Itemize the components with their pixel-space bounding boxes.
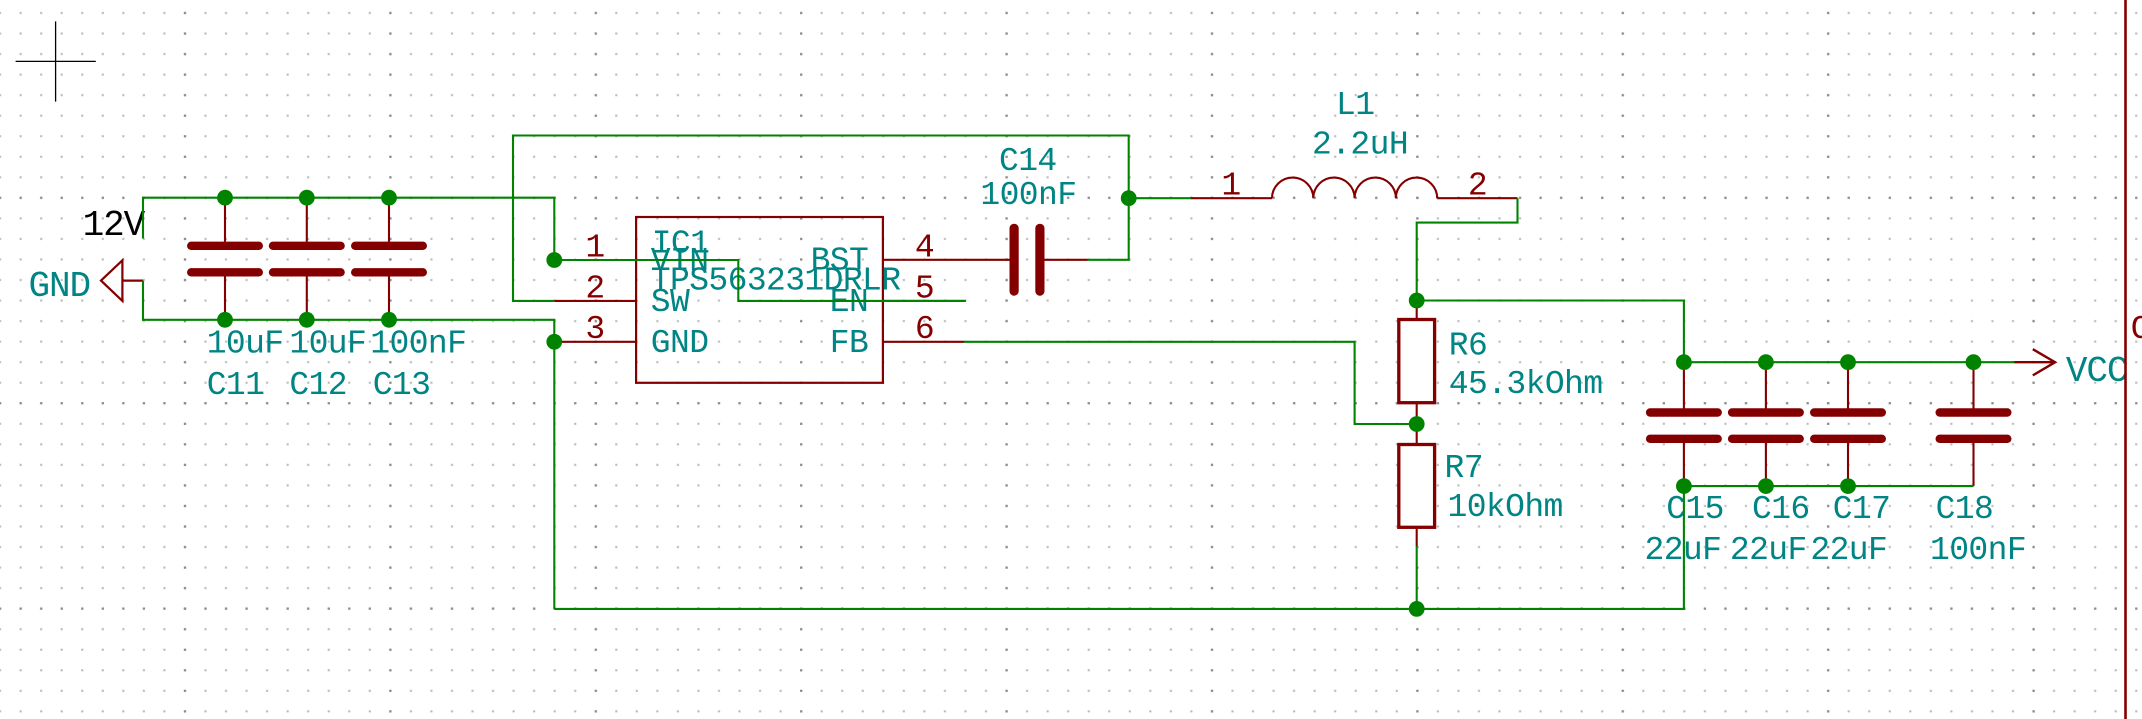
junction node 17 (1676, 478, 1692, 494)
junction node 14 (1758, 354, 1774, 370)
junction node 16 (1966, 354, 1982, 370)
svg-text:SW: SW (651, 284, 690, 321)
svg-text:GND: GND (651, 325, 709, 362)
junction node 9 (1121, 190, 1137, 206)
svg-text:VCC: VCC (2066, 351, 2128, 392)
pin 2 SW (554, 300, 636, 302)
wire VCC bus (1684, 361, 2015, 363)
svg-text:100nF: 100nF (980, 177, 1076, 214)
svg-text:2.2uH: 2.2uH (1312, 127, 1408, 164)
sheet border (2124, 0, 2127, 719)
svg-text:C16: C16 (1752, 491, 1810, 528)
svg-text:2: 2 (1468, 167, 1487, 204)
wire VCC node link (1417, 301, 1684, 363)
svg-text:22uF: 22uF (1730, 532, 1807, 569)
capacitor C18 (1936, 408, 2012, 416)
pin 4 BST (883, 259, 1010, 261)
junction node 3 (381, 190, 397, 206)
wire VIN to EN (554, 260, 966, 301)
svg-text:10kOhm: 10kOhm (1448, 489, 1563, 526)
svg-text:C18: C18 (1936, 491, 1994, 528)
svg-text:2: 2 (585, 270, 604, 307)
junction node 18 (1758, 478, 1774, 494)
svg-text:3: 3 (585, 311, 604, 348)
wire FB divider (964, 342, 1417, 424)
junction node 13 (1676, 354, 1692, 370)
svg-text:FB: FB (830, 325, 868, 362)
svg-text:10uF: 10uF (289, 326, 366, 363)
junction node 6 (381, 312, 397, 328)
svg-text:45.3kOhm: 45.3kOhm (1449, 366, 1603, 403)
pin 6 FB (883, 341, 964, 343)
svg-text:4: 4 (915, 229, 934, 266)
wire node to L1 (1129, 197, 1191, 199)
capacitor C16 (1728, 408, 1804, 416)
sheet origin cross (16, 60, 96, 62)
capacitor C13 (351, 242, 427, 250)
global label VCC arrow (2015, 361, 2056, 363)
wire GND drop (143, 281, 554, 609)
svg-text:EN: EN (830, 284, 868, 321)
svg-text:GND: GND (29, 266, 91, 307)
wire R7 to ground (1416, 546, 1418, 609)
inductor L1 (1272, 178, 1437, 199)
svg-text:6: 6 (915, 311, 934, 348)
svg-text:C11: C11 (207, 367, 265, 404)
svg-text:C13: C13 (373, 367, 431, 404)
junction node 15 (1840, 354, 1856, 370)
capacitor C12 (269, 242, 345, 250)
junction node 4 (217, 312, 233, 328)
wire L1 out jog (1417, 198, 1518, 300)
svg-text:VIN: VIN (651, 243, 709, 280)
wire C14 right to node (1088, 198, 1129, 260)
wire SW to top loop (513, 136, 1129, 301)
svg-text:R7: R7 (1445, 450, 1483, 487)
junction node 19 (1840, 478, 1856, 494)
junction node 12 (1409, 601, 1425, 617)
junction node 7 (546, 252, 562, 268)
junction node 10 (1409, 293, 1425, 309)
svg-text:C17: C17 (1833, 491, 1891, 528)
wire caps bottom bus (1684, 485, 1974, 487)
svg-text:100nF: 100nF (370, 326, 466, 363)
capacitor C11 (187, 242, 263, 250)
junction node 2 (299, 190, 315, 206)
svg-text:C: C (2131, 311, 2142, 348)
svg-text:100nF: 100nF (1930, 532, 2026, 569)
resistor R6 (1399, 320, 1435, 403)
svg-text:L1: L1 (1336, 87, 1374, 124)
junction node 8 (546, 334, 562, 350)
power symbol GND (open arrow) (101, 260, 122, 301)
svg-text:BST: BST (811, 243, 869, 280)
capacitor C15 (1646, 408, 1722, 416)
junction node 5 (299, 312, 315, 328)
pin 1 VIN (554, 259, 636, 261)
capacitor C17 (1810, 408, 1886, 416)
junction node 1 (217, 190, 233, 206)
capacitor C14 (1010, 224, 1019, 296)
svg-text:C15: C15 (1666, 491, 1724, 528)
svg-text:C14: C14 (999, 143, 1057, 180)
svg-text:C12: C12 (289, 367, 347, 404)
junction node 11 (1409, 416, 1425, 432)
resistor R7 (1399, 445, 1435, 528)
pin 3 GND (554, 341, 636, 343)
wire 12V top bus (143, 198, 554, 260)
svg-text:12V: 12V (83, 205, 146, 246)
op-amp/regulator U IC1 body (636, 217, 883, 383)
pin 5 EN (883, 300, 964, 302)
wire ground bus bottom (554, 486, 1684, 609)
svg-text:10uF: 10uF (207, 326, 284, 363)
svg-text:R6: R6 (1449, 327, 1487, 364)
svg-text:22uF: 22uF (1810, 532, 1887, 569)
svg-text:1: 1 (1221, 167, 1240, 204)
